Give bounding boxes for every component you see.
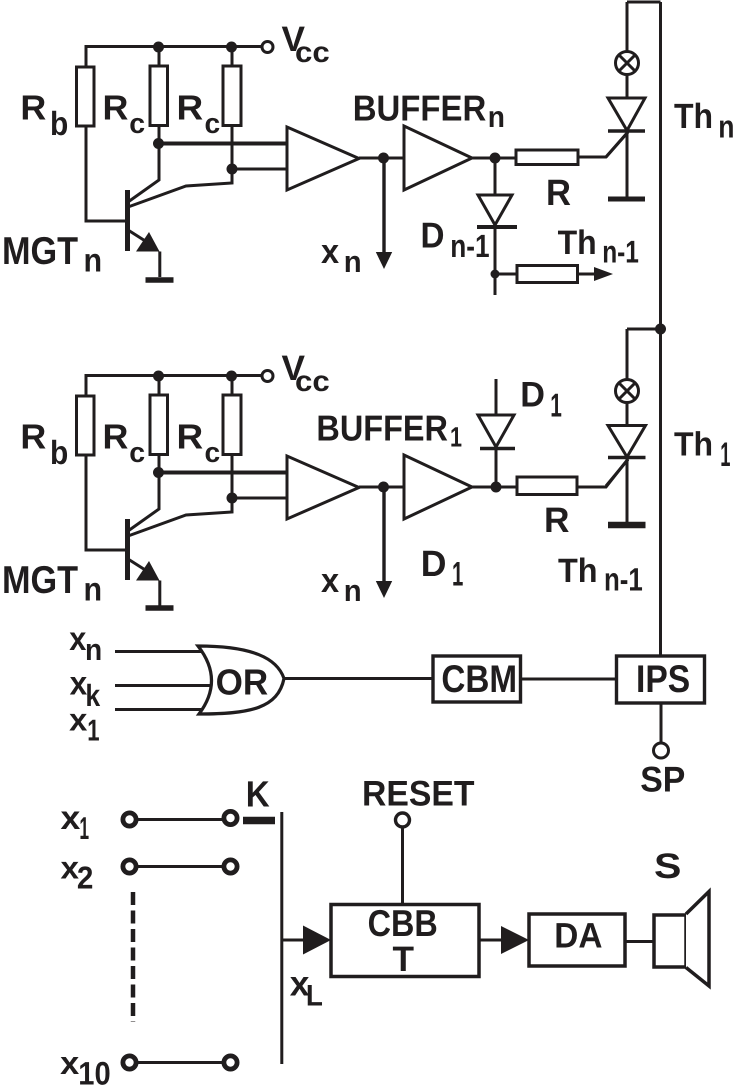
label xn output (middle circuit): [321, 562, 362, 608]
svg-text:k: k: [85, 678, 101, 713]
node junction dot Rc1 top: [153, 42, 164, 53]
resistor to Thn-1 (top circuit): [517, 266, 578, 283]
wire arrow CBB to DA: [479, 926, 529, 954]
resistor R series (top circuit): [516, 150, 578, 165]
diode D1 (middle circuit): [478, 379, 515, 487]
label R series (top circuit): [546, 172, 571, 213]
label K switch: [246, 773, 270, 814]
switch row x1 contacts: [123, 811, 237, 826]
resistor Rc first (middle circuit): [150, 395, 168, 455]
svg-text:x: x: [321, 233, 339, 271]
switch row x2 contacts: [123, 860, 237, 873]
label RESET: [362, 773, 475, 813]
resistor Rc first (top circuit): [150, 66, 168, 126]
node junction dot collector1 (top circuit): [153, 138, 164, 149]
cathode terminal bar Thn: [608, 197, 645, 202]
wire collector2 to Rc2 (top circuit): [128, 126, 232, 208]
wire base from Rb (middle circuit): [86, 454, 125, 550]
svg-text:b: b: [50, 106, 68, 143]
wire buffer input line1 (middle circuit): [158, 471, 287, 475]
wire lamp to thyristor (middle circuit): [626, 403, 629, 426]
svg-text:R: R: [103, 418, 129, 457]
label Vcc (middle circuit): [282, 348, 330, 398]
svg-text:IPS: IPS: [636, 658, 690, 701]
svg-text:cc: cc: [295, 37, 330, 69]
dashed ellipsis line: [131, 892, 136, 1022]
node junction dot collector1 (middle circuit): [153, 467, 164, 478]
label DA: [554, 915, 602, 955]
transistor MGTn base bar (middle circuit): [125, 519, 130, 580]
svg-text:DA: DA: [554, 915, 602, 955]
wire buffer input line2 (top circuit): [232, 168, 287, 171]
svg-text:Th: Th: [674, 427, 713, 464]
svg-text:x: x: [69, 701, 88, 737]
switch blade K: [243, 817, 275, 825]
svg-text:10: 10: [78, 1056, 110, 1087]
node junction dot buffer2 output (top circuit): [490, 153, 501, 164]
svg-text:x: x: [61, 800, 81, 837]
speaker S: [654, 892, 709, 987]
label Rc first (middle circuit): [103, 418, 146, 468]
label SP: [640, 760, 685, 800]
wire RESET to CBB: [401, 828, 404, 903]
wire collector1 to Rc1 (middle circuit): [128, 455, 159, 532]
svg-text:R: R: [177, 418, 204, 457]
wire xn into OR: [115, 650, 212, 653]
node junction dot Rc1 middle: [153, 371, 164, 382]
svg-text:L: L: [306, 980, 323, 1013]
block CBB T: [331, 905, 479, 977]
svg-text:Th: Th: [674, 97, 713, 136]
wire R to thyristor gate (top circuit): [578, 132, 628, 157]
lamp (top circuit): [616, 52, 639, 75]
label T: [393, 939, 415, 979]
wire buffer input line1 (top circuit): [158, 142, 287, 146]
svg-text:Th: Th: [558, 224, 597, 262]
wire arrow xL into CBB: [283, 926, 331, 955]
thyristor Thn: [606, 98, 645, 197]
label S: [654, 846, 681, 886]
block DA: [529, 914, 625, 966]
transistor MGTn emitter (top circuit): [128, 230, 160, 277]
wire to Thn-1 resistor: [495, 273, 517, 276]
svg-text:n: n: [85, 634, 102, 667]
svg-text:RESET: RESET: [362, 773, 475, 813]
label xk input OR: [70, 666, 101, 713]
terminal Vcc (top circuit): [262, 42, 273, 53]
svg-text:x: x: [321, 562, 339, 600]
wire Vcc rail top circuit: [86, 47, 262, 68]
node junction dot Dn-1 bottom: [491, 270, 500, 279]
wire lamp to thyristor (top circuit): [626, 75, 629, 99]
node junction dot Rc2 middle: [226, 371, 237, 382]
svg-text:b: b: [50, 435, 68, 472]
svg-text:x: x: [60, 1045, 79, 1081]
wire DA to speaker: [625, 940, 654, 943]
svg-text:n-1: n-1: [602, 234, 639, 269]
svg-text:Th: Th: [558, 552, 598, 590]
svg-text:BUFFER: BUFFER: [353, 87, 487, 128]
lamp (middle circuit): [616, 380, 639, 403]
label xL: [290, 964, 323, 1012]
wire buffer1 to buffer2 (middle circuit): [359, 486, 404, 489]
ground (top transistor): [146, 277, 174, 283]
wire OR to CBM: [284, 677, 433, 680]
wire base from Rb (top circuit): [86, 125, 125, 221]
label x1 input OR: [69, 701, 99, 747]
svg-text:D: D: [421, 543, 447, 584]
label D1 upper: [520, 375, 562, 424]
wire CBM to IPS: [522, 678, 616, 681]
svg-text:D: D: [520, 375, 545, 415]
svg-text:R: R: [20, 418, 46, 457]
buffer stage1 triangle (top circuit): [287, 127, 359, 190]
node junction dot Rc2 top: [226, 42, 237, 53]
wire lamp branch link (middle circuit): [627, 329, 661, 380]
svg-text:R: R: [103, 89, 129, 128]
label D1 lower: [421, 543, 464, 594]
svg-text:1: 1: [87, 715, 99, 748]
svg-text:R: R: [177, 89, 204, 128]
svg-text:n: n: [344, 575, 362, 608]
svg-text:D: D: [421, 216, 445, 256]
gate OR: [198, 646, 284, 714]
label CBB: [368, 902, 438, 944]
label MGTn (top circuit): [2, 230, 102, 279]
resistor Rb (middle circuit): [77, 396, 95, 455]
cathode terminal bar Th1: [608, 522, 646, 529]
svg-text:OR: OR: [216, 662, 269, 703]
label Thn: [674, 97, 733, 145]
svg-text:R: R: [20, 89, 46, 128]
node junction dot collector2 (middle circuit): [227, 493, 238, 504]
wire x1 into OR: [115, 708, 212, 711]
node junction dot buffer2 output (middle circuit): [491, 482, 502, 493]
node junction dot collector2 (top circuit): [227, 164, 238, 175]
svg-text:n: n: [488, 101, 505, 134]
transistor MGTn emitter (middle circuit): [128, 559, 160, 606]
svg-text:c: c: [205, 107, 221, 139]
label Thn-1 (top circuit): [558, 224, 639, 269]
svg-text:MGT: MGT: [2, 559, 78, 602]
label x2 switch row: [61, 851, 94, 896]
svg-text:R: R: [546, 172, 571, 213]
svg-text:n: n: [84, 571, 103, 608]
wire Vcc rail middle circuit: [86, 376, 262, 397]
wire R to thyristor gate (middle circuit): [577, 459, 628, 487]
wire main bus right: [659, 2, 662, 655]
wire switch bus vertical: [280, 812, 283, 1064]
wire buffer2 output (top circuit): [472, 157, 516, 160]
label Rc first (top circuit): [103, 89, 146, 139]
label Vcc (top circuit): [282, 19, 330, 69]
svg-text:MGT: MGT: [2, 230, 78, 273]
wire IPS to SP terminal: [660, 703, 663, 743]
label Th1: [674, 427, 730, 474]
svg-text:T: T: [393, 939, 415, 979]
svg-text:CBB: CBB: [368, 902, 438, 944]
buffer stage2 triangle (middle circuit): [404, 455, 472, 519]
wire buffer input line2 (middle circuit): [232, 497, 287, 500]
wire buffer1 to buffer2 (top circuit): [359, 157, 404, 160]
switch row x10 contacts: [123, 1056, 237, 1069]
wire collector1 to Rc1 (top circuit): [128, 126, 159, 203]
label xn input OR: [69, 621, 102, 667]
wire collector2 to Rc2 (middle circuit): [128, 455, 232, 537]
label BUFFER1: [316, 407, 462, 452]
label Dn-1: [421, 216, 490, 265]
wire xk into OR: [115, 684, 218, 687]
label x1 switch row: [61, 800, 90, 846]
wire output xn arrow (middle circuit): [376, 487, 392, 598]
svg-text:n: n: [718, 108, 733, 144]
ground (middle transistor): [146, 605, 174, 611]
node junction dot xn tap (middle circuit): [378, 482, 389, 493]
label IPS: [636, 658, 690, 701]
svg-text:n: n: [84, 242, 103, 279]
svg-text:1: 1: [550, 387, 562, 424]
svg-text:SP: SP: [640, 760, 685, 800]
svg-text:CBM: CBM: [441, 658, 517, 701]
svg-text:1: 1: [720, 436, 730, 474]
svg-text:c: c: [129, 436, 145, 468]
svg-text:K: K: [246, 773, 270, 814]
label OR: [216, 662, 269, 703]
svg-text:c: c: [205, 436, 221, 468]
svg-text:c: c: [129, 107, 145, 139]
block IPS: [617, 656, 705, 703]
svg-text:2: 2: [77, 860, 94, 896]
svg-text:BUFFER: BUFFER: [316, 407, 448, 448]
buffer stage1 triangle (middle circuit): [287, 456, 359, 519]
svg-text:1: 1: [452, 556, 463, 594]
node junction dot xn tap (top circuit): [378, 153, 389, 164]
svg-text:1: 1: [450, 422, 462, 453]
svg-text:n-1: n-1: [450, 228, 489, 264]
label Rb (middle circuit): [20, 418, 68, 472]
label R series (middle circuit): [544, 500, 570, 540]
resistor Rb (top circuit): [77, 67, 95, 126]
wire lamp branch top link (top circuit): [627, 2, 661, 52]
thyristor Th1: [606, 426, 646, 523]
terminal SP: [654, 743, 669, 758]
buffer stage2 triangle (top circuit): [404, 126, 472, 190]
label CBM: [441, 658, 517, 701]
label Rb (top circuit): [20, 89, 68, 143]
label MGTn (middle circuit): [2, 559, 102, 608]
svg-text:n: n: [344, 246, 362, 279]
label BUFFERn: [353, 87, 505, 134]
node junction dot bus lamp branch: [655, 324, 666, 335]
label Rc second (top circuit): [177, 89, 221, 139]
diode Dn-1: [477, 158, 517, 295]
label xn output (top circuit): [321, 233, 362, 279]
resistor Rc second (middle circuit): [223, 395, 241, 455]
label x10 switch row: [60, 1045, 111, 1087]
svg-text:S: S: [654, 846, 681, 886]
wire arrow to Thn-1: [578, 267, 614, 281]
svg-text:1: 1: [79, 810, 89, 846]
transistor MGTn base bar (top circuit): [125, 190, 130, 251]
wire output xn arrow (top circuit): [376, 158, 392, 269]
resistor R series (middle circuit): [517, 477, 577, 495]
svg-text:n-1: n-1: [604, 562, 643, 598]
svg-text:R: R: [544, 500, 570, 540]
label Thn-1 (middle circuit): [558, 552, 643, 598]
resistor Rc second (top circuit): [223, 66, 241, 126]
svg-text:cc: cc: [295, 366, 330, 398]
terminal Vcc (middle circuit): [262, 371, 273, 382]
wire buffer2 output (middle circuit): [472, 486, 517, 489]
label Rc second (middle circuit): [177, 418, 221, 468]
block CBM: [433, 656, 521, 702]
terminal RESET: [396, 813, 410, 827]
